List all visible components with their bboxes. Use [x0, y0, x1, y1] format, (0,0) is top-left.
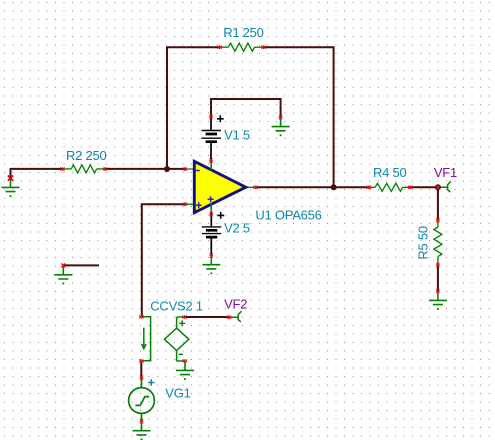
svg-text:V2 5: V2 5 — [224, 220, 250, 235]
svg-text:R4 50: R4 50 — [373, 165, 406, 180]
svg-text:VG1: VG1 — [165, 386, 190, 401]
svg-text:U1 OPA656: U1 OPA656 — [255, 208, 321, 223]
svg-text:VF2: VF2 — [224, 296, 247, 311]
svg-text:R5 50: R5 50 — [415, 226, 430, 259]
svg-text:VF1: VF1 — [434, 165, 457, 180]
svg-text:CCVS2 1: CCVS2 1 — [150, 299, 202, 314]
svg-text:R1 250: R1 250 — [223, 25, 263, 40]
svg-text:R2 250: R2 250 — [66, 148, 106, 163]
svg-text:V1 5: V1 5 — [224, 127, 250, 142]
